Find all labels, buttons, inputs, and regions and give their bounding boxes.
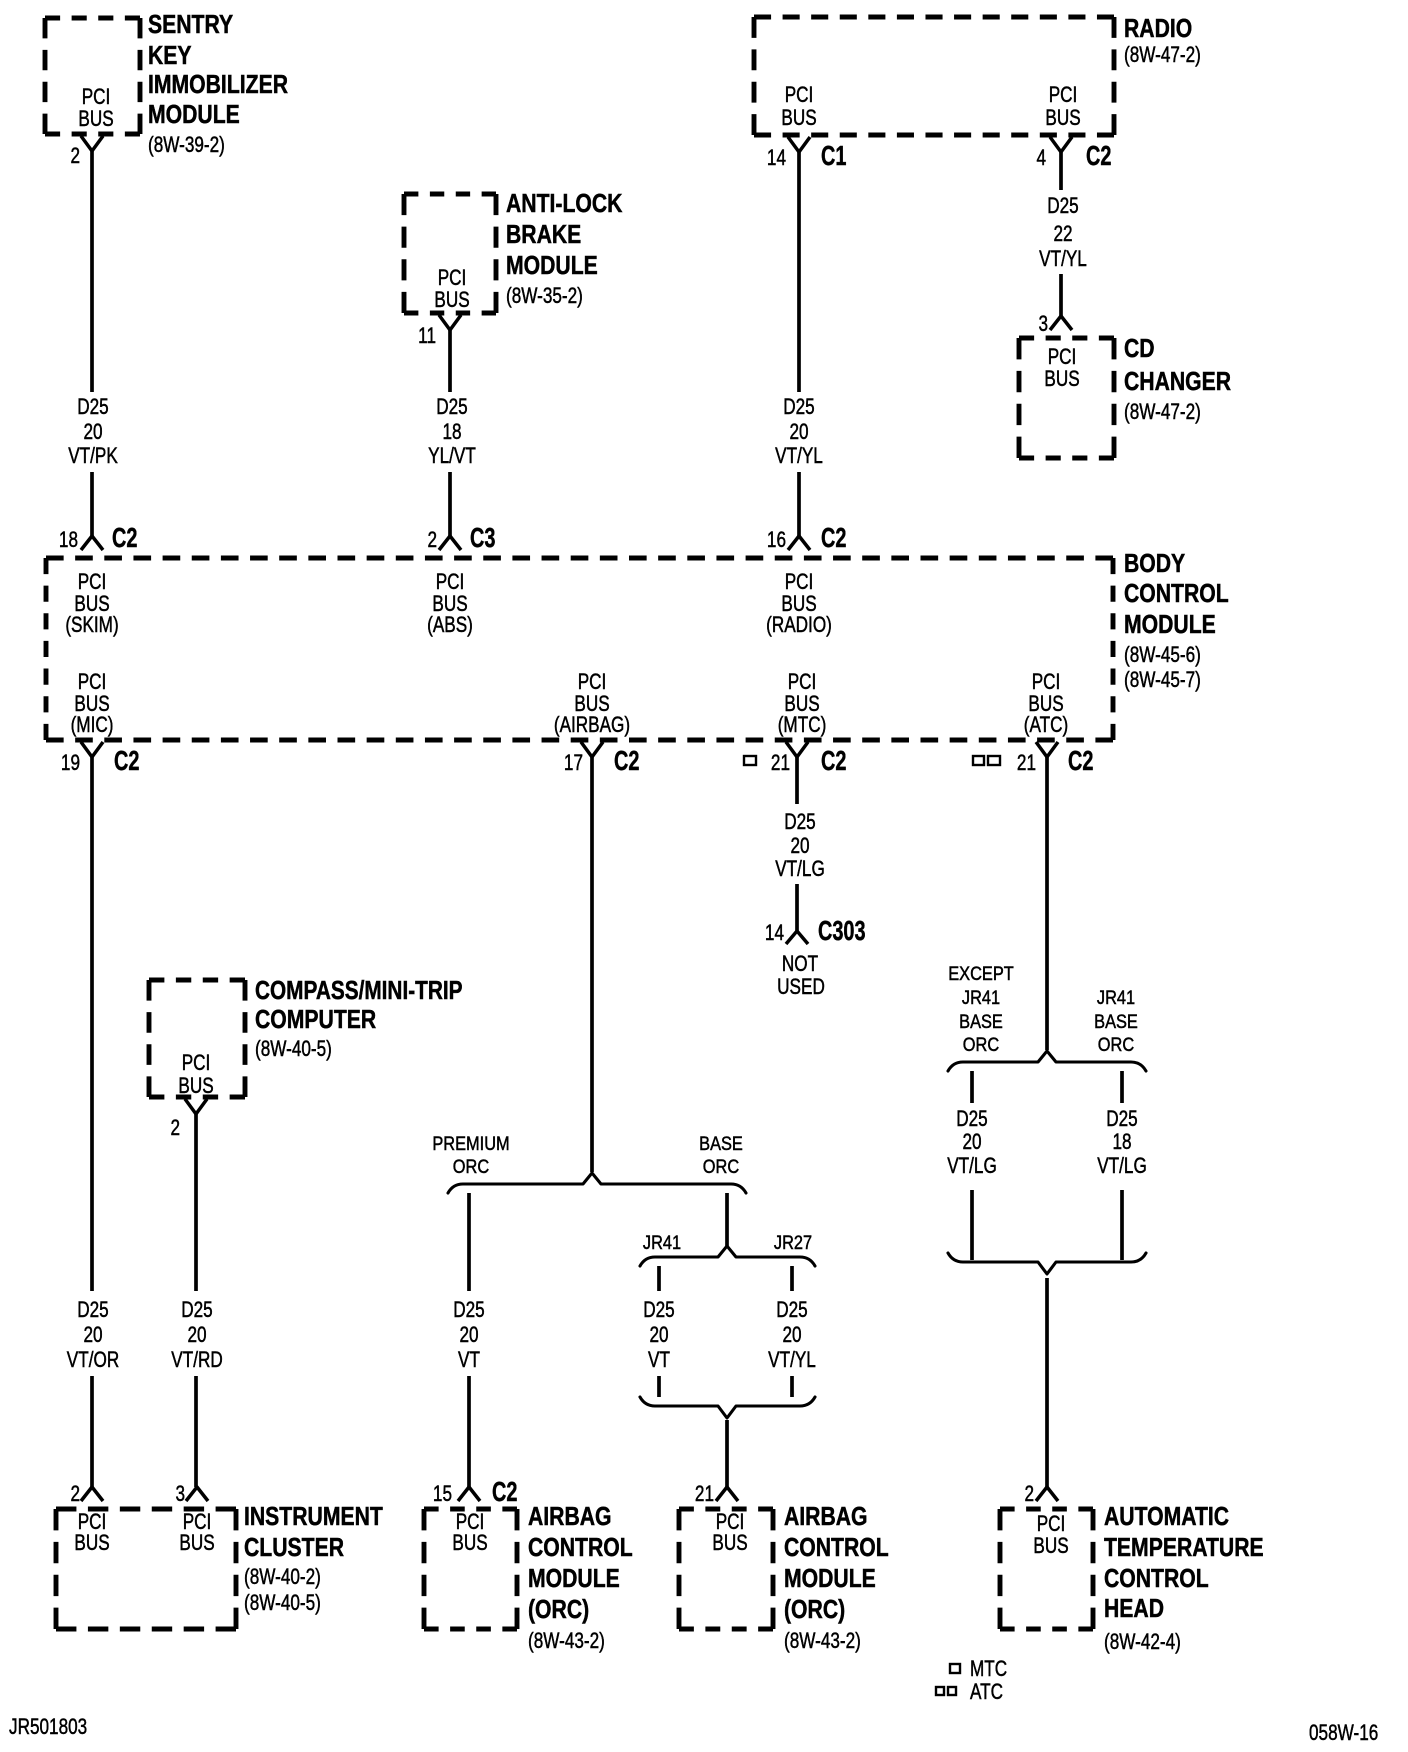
svg-text:(8W-47-2): (8W-47-2) [1124, 43, 1201, 68]
svg-text:BASE: BASE [959, 1011, 1003, 1033]
svg-text:BUS: BUS [781, 106, 816, 131]
net label PCI BUS (AIRBAG) [578, 670, 607, 695]
svg-text:KEY: KEY [148, 42, 192, 71]
connector pin 21 into airbag control module base [716, 1487, 738, 1501]
module name ANTI-LOCK BRAKE MODULE (8W-35-2) [506, 190, 622, 219]
svg-text:BUS: BUS [178, 1074, 213, 1099]
module box: Airbag Control Module base [679, 1509, 773, 1629]
svg-text:HEAD: HEAD [1104, 1595, 1164, 1624]
svg-text:PREMIUM: PREMIUM [432, 1133, 509, 1155]
svg-text:CONTROL: CONTROL [528, 1534, 633, 1563]
svg-text:(8W-43-2): (8W-43-2) [784, 1629, 861, 1654]
svg-text:NOT: NOT [782, 952, 818, 977]
svg-text:(8W-42-4): (8W-42-4) [1104, 1630, 1181, 1655]
wire D25 18 VT/LG JR41-base branch [1120, 1071, 1124, 1260]
svg-text:D25: D25 [181, 1298, 212, 1323]
svg-text:21: 21 [695, 1482, 714, 1507]
module name BODY CONTROL MODULE (8W-45-6) (8W-45-7) [1124, 550, 1185, 579]
svg-text:D25: D25 [436, 395, 467, 420]
wire D25 20 VT/LG from BCM pin 21 MTC [795, 757, 799, 931]
svg-text:INSTRUMENT: INSTRUMENT [244, 1503, 383, 1532]
connector pin 15 C2 into airbag control module premium [458, 1487, 480, 1501]
svg-text:BUS: BUS [78, 107, 113, 132]
module name AIRBAG CONTROL MODULE (ORC) (8W-43-2) base [784, 1503, 868, 1532]
connector pin 17 C2 of BCM [581, 742, 603, 757]
svg-text:(8W-40-2): (8W-40-2) [244, 1565, 321, 1590]
merge brace ATC branches [948, 1253, 1146, 1274]
svg-text:D25: D25 [776, 1298, 807, 1323]
svg-text:PCI: PCI [438, 266, 467, 291]
svg-text:C303: C303 [818, 916, 865, 947]
svg-text:D25: D25 [453, 1298, 484, 1323]
connector pin 2 into ATC head [1036, 1487, 1058, 1501]
svg-text:AIRBAG: AIRBAG [528, 1503, 612, 1532]
svg-text:D25: D25 [783, 395, 814, 420]
svg-text:D25: D25 [643, 1298, 674, 1323]
svg-text:3: 3 [175, 1482, 185, 1507]
svg-text:18: 18 [442, 420, 461, 445]
svg-text:JR41: JR41 [1097, 987, 1135, 1009]
ATC marker squares at pin 21 [973, 756, 984, 765]
legend ATC marker [936, 1687, 944, 1695]
wire D25 20 VT JR41 branch [657, 1266, 661, 1397]
svg-text:16: 16 [767, 528, 786, 553]
svg-text:2: 2 [70, 144, 80, 169]
legend MTC marker [950, 1664, 960, 1673]
label PCI BUS inside SKIM box [82, 85, 111, 110]
connector pin 2 of compass computer [185, 1099, 207, 1114]
svg-text:D25: D25 [956, 1107, 987, 1132]
label PCI BUS inside Radio box left [785, 83, 814, 108]
module box: Radio [754, 17, 1114, 135]
svg-text:11: 11 [418, 324, 436, 349]
svg-text:C2: C2 [821, 523, 846, 554]
svg-text:20: 20 [789, 420, 808, 445]
module box: Airbag Control Module premium [424, 1509, 517, 1629]
svg-text:2: 2 [170, 1116, 180, 1141]
connector pin 11 of ABS [439, 315, 461, 330]
split brace PREMIUM ORC / BASE ORC [448, 1173, 746, 1193]
net label PCI BUS (RADIO) [785, 570, 814, 595]
svg-text:PCI: PCI [578, 670, 607, 695]
module name SENTRY KEY IMMOBILIZER MODULE (8W-39-2) [148, 11, 233, 40]
footer sheet number JR501803 [9, 1715, 87, 1740]
wire base ORC branch [725, 1193, 729, 1246]
split brace JR41 / JR27 [640, 1246, 815, 1266]
svg-text:PCI: PCI [78, 570, 107, 595]
connector pin 14 C1 of Radio [788, 137, 810, 152]
label PCI BUS inside ATC head box [1037, 1512, 1066, 1537]
svg-text:22: 22 [1053, 222, 1072, 247]
svg-text:VT/RD: VT/RD [171, 1348, 222, 1373]
svg-text:15: 15 [433, 1482, 452, 1507]
svg-text:C2: C2 [821, 746, 846, 777]
svg-text:MODULE: MODULE [506, 252, 598, 281]
svg-text:(8W-35-2): (8W-35-2) [506, 284, 583, 309]
svg-text:VT/PK: VT/PK [68, 444, 118, 469]
svg-text:2: 2 [70, 1482, 80, 1507]
svg-text:PCI: PCI [1032, 670, 1061, 695]
svg-text:20: 20 [187, 1323, 206, 1348]
svg-text:(8W-40-5): (8W-40-5) [255, 1037, 332, 1062]
wire into automatic temperature control head [1045, 1278, 1049, 1487]
svg-text:BUS: BUS [1044, 367, 1079, 392]
svg-text:(8W-45-7): (8W-45-7) [1124, 668, 1201, 693]
svg-text:(AIRBAG): (AIRBAG) [554, 713, 630, 738]
connector pin 21 C2 (MTC) of BCM [786, 742, 808, 757]
svg-text:4: 4 [1036, 146, 1046, 171]
svg-text:21: 21 [1017, 751, 1036, 776]
label PCI BUS inside CD changer box [1048, 345, 1077, 370]
svg-text:CD: CD [1124, 335, 1155, 364]
svg-text:BASE: BASE [699, 1133, 743, 1155]
svg-text:20: 20 [649, 1323, 668, 1348]
svg-text:VT/YL: VT/YL [768, 1348, 816, 1373]
svg-text:VT/OR: VT/OR [67, 1348, 119, 1373]
svg-text:MODULE: MODULE [1124, 611, 1216, 640]
svg-text:D25: D25 [77, 1298, 108, 1323]
wire PCI BUS ATC from BCM pin 21 [1045, 757, 1049, 1050]
module name AIRBAG CONTROL MODULE (ORC) (8W-43-2) premium [528, 1503, 612, 1532]
svg-text:PCI: PCI [788, 670, 817, 695]
connector pin 14 C303 not used [786, 931, 808, 944]
label PCI BUS inside compass box [182, 1051, 211, 1076]
net label PCI BUS (ATC) [1032, 670, 1061, 695]
net label PCI BUS (SKIM) [78, 570, 107, 595]
svg-text:058W-16: 058W-16 [1309, 1721, 1378, 1746]
svg-text:(8W-47-2): (8W-47-2) [1124, 400, 1201, 425]
svg-text:BUS: BUS [712, 1531, 747, 1556]
connector pin 4 C2 of Radio [1050, 137, 1072, 152]
module box: Automatic Temperature Control Head [1000, 1509, 1093, 1629]
svg-text:VT/LG: VT/LG [775, 857, 825, 882]
svg-text:VT: VT [648, 1348, 670, 1373]
svg-text:PCI: PCI [1048, 345, 1077, 370]
svg-text:14: 14 [767, 146, 786, 171]
net label PCI BUS (MIC) [78, 670, 107, 695]
label NOT USED [782, 952, 818, 977]
connector pin 16 C2 into BCM [788, 536, 810, 550]
svg-text:(RADIO): (RADIO) [766, 613, 832, 638]
svg-text:EXCEPT: EXCEPT [948, 963, 1014, 985]
svg-text:18: 18 [1112, 1130, 1131, 1155]
svg-text:PCI: PCI [82, 85, 111, 110]
connector pin 18 C2 into BCM [81, 536, 103, 550]
connector pin 19 C2 of BCM [81, 742, 103, 757]
svg-text:C2: C2 [1086, 141, 1111, 172]
svg-text:VT/YL: VT/YL [1039, 247, 1087, 272]
svg-text:BUS: BUS [1033, 1534, 1068, 1559]
label PCI BUS inside ABS box [438, 266, 467, 291]
svg-text:20: 20 [962, 1130, 981, 1155]
svg-text:BUS: BUS [179, 1531, 214, 1556]
svg-text:CHANGER: CHANGER [1124, 368, 1231, 397]
svg-text:ORC: ORC [703, 1156, 739, 1178]
svg-text:(8W-45-6): (8W-45-6) [1124, 643, 1201, 668]
svg-text:C2: C2 [614, 746, 639, 777]
svg-text:C2: C2 [492, 1477, 517, 1508]
connector pin 2 into instrument cluster [81, 1487, 103, 1501]
svg-text:(8W-40-5): (8W-40-5) [244, 1591, 321, 1616]
module name COMPASS/MINI-TRIP COMPUTER (8W-40-5) [255, 976, 463, 1005]
wire D25 20 VT/OR from BCM pin 19 [90, 757, 94, 1487]
svg-text:BUS: BUS [1045, 106, 1080, 131]
svg-text:CONTROL: CONTROL [1104, 1565, 1209, 1594]
net label PCI BUS (MTC) [788, 670, 817, 695]
split brace EXCEPT JR41 BASE ORC / JR41 BASE ORC [948, 1051, 1146, 1071]
svg-text:COMPUTER: COMPUTER [255, 1006, 376, 1035]
wire into base airbag control module [725, 1420, 729, 1487]
svg-text:BODY: BODY [1124, 550, 1185, 579]
svg-text:ORC: ORC [1098, 1034, 1134, 1056]
svg-text:14: 14 [765, 921, 784, 946]
module box: Body Control Module [46, 558, 1113, 740]
svg-text:C2: C2 [114, 746, 139, 777]
svg-text:PCI: PCI [436, 570, 465, 595]
module name CD CHANGER (8W-47-2) [1124, 335, 1155, 364]
svg-text:ANTI-LOCK: ANTI-LOCK [506, 190, 622, 219]
svg-text:BUS: BUS [74, 1531, 109, 1556]
wire D25 20 VT/PK from SKIM pin 2 [90, 151, 94, 536]
svg-text:ATC: ATC [970, 1680, 1003, 1705]
svg-text:VT/LG: VT/LG [947, 1154, 997, 1179]
svg-text:D25: D25 [77, 395, 108, 420]
module name INSTRUMENT CLUSTER (8W-40-2) (8W-40-5) [244, 1503, 383, 1532]
svg-text:20: 20 [459, 1323, 478, 1348]
svg-text:PCI: PCI [1037, 1512, 1066, 1537]
svg-text:JR41: JR41 [962, 987, 1000, 1009]
svg-text:VT/LG: VT/LG [1097, 1154, 1147, 1179]
wire D25 20 VT/YL from Radio pin 14 [797, 152, 801, 536]
svg-text:17: 17 [564, 751, 583, 776]
svg-text:D25: D25 [784, 810, 815, 835]
wire D25 22 VT/YL from Radio pin 4 [1059, 152, 1063, 316]
svg-text:PCI: PCI [785, 83, 814, 108]
svg-text:PCI: PCI [182, 1051, 211, 1076]
svg-text:CLUSTER: CLUSTER [244, 1534, 344, 1563]
svg-text:JR27: JR27 [774, 1232, 812, 1254]
svg-text:CONTROL: CONTROL [1124, 580, 1229, 609]
svg-text:D25: D25 [1047, 194, 1078, 219]
label PCI BUS pin3 inside cluster [183, 1510, 212, 1535]
svg-text:C3: C3 [470, 523, 495, 554]
module box: Sentry Key Immobilizer Module [45, 18, 140, 134]
svg-text:VT: VT [458, 1348, 480, 1373]
svg-text:(MTC): (MTC) [778, 713, 827, 738]
label PCI BUS inside premium airbag box [456, 1510, 485, 1535]
footer drawing number 058W-16 [1309, 1721, 1378, 1746]
svg-text:VT/YL: VT/YL [775, 444, 823, 469]
wire PCI BUS AIRBAG from BCM pin 17 [590, 757, 594, 1172]
svg-text:(8W-43-2): (8W-43-2) [528, 1629, 605, 1654]
module box: Compass/Mini-Trip Computer [149, 980, 245, 1097]
svg-text:CONTROL: CONTROL [784, 1534, 889, 1563]
svg-text:IMMOBILIZER: IMMOBILIZER [148, 71, 288, 100]
module box: Anti-Lock Brake Module [404, 194, 496, 313]
svg-text:AIRBAG: AIRBAG [784, 1503, 868, 1532]
svg-text:JR501803: JR501803 [9, 1715, 87, 1740]
svg-text:SENTRY: SENTRY [148, 11, 233, 40]
wire D25 18 YL/VT from ABS pin 11 [448, 330, 452, 536]
svg-text:MODULE: MODULE [148, 101, 240, 130]
svg-text:(ORC): (ORC) [784, 1596, 845, 1625]
module box: Instrument Cluster [56, 1509, 236, 1629]
svg-text:BUS: BUS [434, 288, 469, 313]
svg-text:(MIC): (MIC) [71, 713, 114, 738]
wire D25 20 VT/LG except-JR41 branch [970, 1071, 974, 1260]
svg-text:2: 2 [427, 528, 437, 553]
svg-text:MTC: MTC [970, 1657, 1007, 1682]
svg-text:TEMPERATURE: TEMPERATURE [1104, 1534, 1264, 1563]
svg-text:20: 20 [790, 834, 809, 859]
wire D25 20 VT premium ORC branch [467, 1193, 471, 1487]
svg-text:ORC: ORC [453, 1156, 489, 1178]
svg-text:18: 18 [59, 528, 78, 553]
svg-text:RADIO: RADIO [1124, 15, 1192, 44]
svg-text:20: 20 [782, 1323, 801, 1348]
svg-text:(ATC): (ATC) [1024, 713, 1068, 738]
net label PCI BUS (ABS) [436, 570, 465, 595]
svg-text:BUS: BUS [452, 1531, 487, 1556]
svg-text:BASE: BASE [1094, 1011, 1138, 1033]
connector pin 2 of SKIM [81, 136, 103, 151]
connector pin 3 into instrument cluster [186, 1487, 208, 1501]
label PCI BUS inside Radio box right [1049, 83, 1078, 108]
svg-text:(8W-39-2): (8W-39-2) [148, 133, 225, 158]
svg-text:MODULE: MODULE [528, 1565, 620, 1594]
MTC marker square at pin 21 [744, 756, 756, 765]
svg-text:PCI: PCI [785, 570, 814, 595]
svg-text:AUTOMATIC: AUTOMATIC [1104, 1503, 1229, 1532]
svg-text:C2: C2 [112, 523, 137, 554]
connector pin 21 C2 (ATC) of BCM [1036, 742, 1058, 757]
svg-text:20: 20 [83, 420, 102, 445]
wire D25 20 VT/RD from compass pin 2 [194, 1114, 198, 1487]
svg-text:21: 21 [771, 751, 790, 776]
svg-text:C1: C1 [821, 141, 846, 172]
svg-text:2: 2 [1024, 1482, 1034, 1507]
module box: CD Changer [1019, 338, 1114, 458]
svg-text:USED: USED [777, 975, 825, 1000]
svg-text:COMPASS/MINI-TRIP: COMPASS/MINI-TRIP [255, 976, 463, 1005]
wire D25 20 VT/YL JR27 branch [790, 1266, 794, 1397]
svg-text:19: 19 [61, 751, 80, 776]
svg-text:20: 20 [83, 1323, 102, 1348]
svg-text:JR41: JR41 [643, 1232, 681, 1254]
svg-text:ORC: ORC [963, 1034, 999, 1056]
svg-text:C2: C2 [1068, 746, 1093, 777]
svg-text:D25: D25 [1106, 1107, 1137, 1132]
svg-text:MODULE: MODULE [784, 1565, 876, 1594]
svg-text:PCI: PCI [78, 670, 107, 695]
connector pin 2 C3 into BCM [439, 536, 461, 550]
svg-text:PCI: PCI [1049, 83, 1078, 108]
module name AUTOMATIC TEMPERATURE CONTROL HEAD (8W-42-4) [1104, 1503, 1229, 1532]
svg-text:3: 3 [1038, 312, 1048, 337]
svg-text:(ORC): (ORC) [528, 1596, 589, 1625]
label PCI BUS inside base airbag box [716, 1510, 745, 1535]
merge brace JR41/JR27 to base airbag module [640, 1397, 815, 1418]
svg-text:(SKIM): (SKIM) [65, 613, 118, 638]
svg-text:BRAKE: BRAKE [506, 221, 581, 250]
svg-text:(ABS): (ABS) [427, 613, 473, 638]
label PCI BUS pin2 inside cluster [78, 1510, 107, 1535]
svg-text:YL/VT: YL/VT [428, 444, 476, 469]
module name RADIO (8W-47-2) [1124, 15, 1192, 44]
connector pin 3 into CD changer [1050, 316, 1072, 330]
